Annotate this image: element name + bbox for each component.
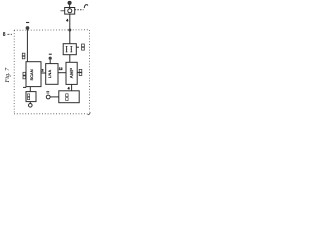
svg-text:Fig. 7: Fig. 7 [4,67,11,84]
svg-text:LNA: LNA [47,69,52,78]
svg-text:SCAN: SCAN [29,69,34,80]
svg-text:4: 4 [66,19,68,23]
svg-text:12: 12 [59,67,63,71]
svg-text:2: 2 [42,68,44,72]
svg-text:8: 8 [3,32,6,38]
svg-text:AMP: AMP [69,67,74,78]
svg-text:4: 4 [68,86,70,90]
